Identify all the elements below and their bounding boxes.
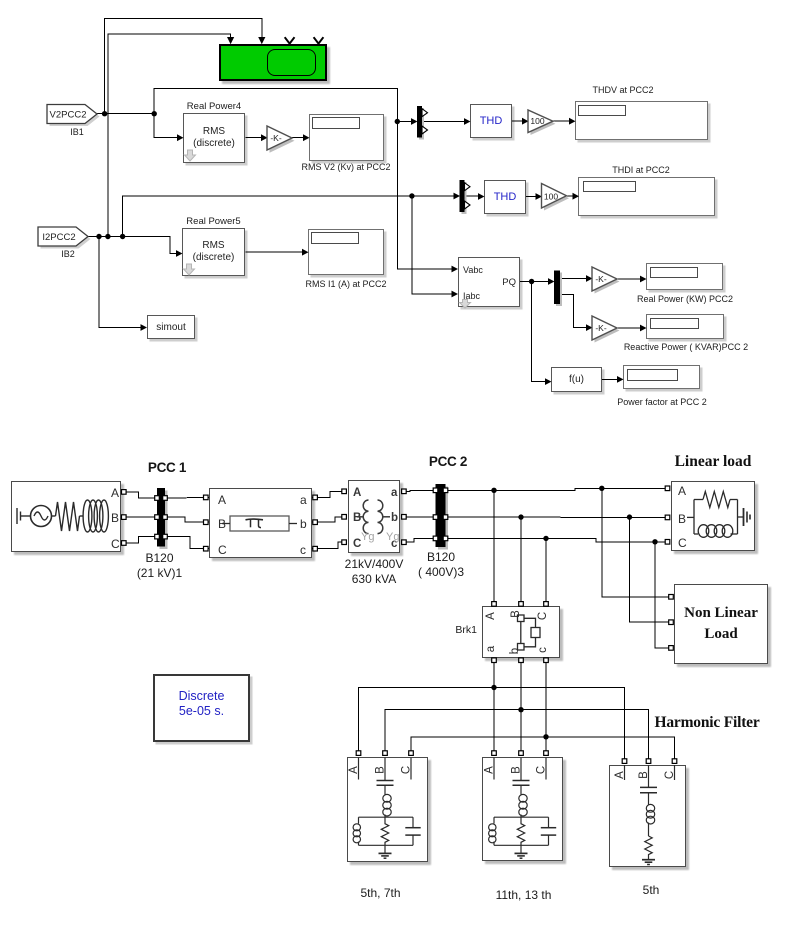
port squares bus1 (155, 496, 160, 501)
wire branch c to filter3 C (546, 737, 675, 760)
wire I2PCC2 output to RMS2 (88, 237, 177, 254)
wire drop b to Brk1 B (520, 517, 522, 602)
wire bus1 c to pi C (165, 537, 209, 549)
wire I2 up to scope input 1 (108, 34, 231, 237)
svg-text:Yg: Yg (361, 531, 374, 543)
pi section block (209, 488, 312, 558)
wire pi a to trafo A (312, 491, 346, 497)
wire demux out1 to gain4 (560, 278, 587, 280)
wire branch b to filter1 B (385, 710, 521, 752)
wire mux1 to THD1 (422, 121, 465, 123)
wire THD2 to gain 100 (526, 196, 536, 198)
svg-text:B: B (375, 766, 387, 774)
junction dot filter branch a (491, 685, 496, 690)
f(u) block (551, 367, 602, 392)
wire bus1 b to pi B (165, 517, 209, 522)
harmonic filter block 5th,7th (347, 757, 428, 862)
label IB2 (48, 249, 88, 261)
filter2 rotated letters (484, 766, 548, 774)
selector mux 1 (417, 106, 428, 140)
svg-text:c: c (537, 647, 549, 653)
demux bar (554, 271, 562, 307)
bus B120 (21 kV)1 label (129, 551, 190, 582)
arrowheads top section (177, 134, 184, 141)
junction dot I2-scope (105, 234, 110, 239)
svg-text:B: B (511, 766, 523, 774)
wire trafo c to bus2 (402, 538, 436, 542)
junction dot b-NLL (627, 514, 632, 519)
wire RMS2 to display (246, 251, 303, 253)
wire gain5 to display (617, 327, 641, 329)
wire THD1 to gain 100 (512, 120, 523, 122)
pi section interior icon (222, 516, 297, 531)
wire V2PCC2 output (97, 113, 154, 115)
junction dot I2-simout (96, 234, 101, 239)
transformer winding icon (357, 500, 390, 534)
port squares linear load (665, 486, 670, 491)
wire PQ output to demux (520, 281, 549, 283)
RMS block 1 (183, 113, 245, 163)
scope unconnected chevron 1 (285, 37, 295, 43)
wire pi c to trafo C (312, 542, 346, 549)
port squares filter1 (356, 751, 361, 756)
wire branch b to filter3 B (521, 710, 649, 760)
scope input arrow 1 (227, 37, 234, 44)
junction dot a-Brk (491, 488, 496, 493)
THD block 1 (470, 104, 512, 138)
RMS1 gray resample arrow (185, 150, 196, 161)
wire demux out2 to gain5 (560, 294, 587, 327)
wire phase b bus2 to linear load (446, 516, 668, 518)
svg-text:100: 100 (530, 116, 544, 126)
svg-text:-K-: -K- (270, 133, 282, 143)
filter2 interior (489, 758, 557, 859)
junction dot filter branch c (543, 734, 548, 739)
junction dot V2-scope (102, 111, 107, 116)
svg-text:-K-: -K- (595, 274, 607, 284)
wire I2 down to simout (99, 237, 141, 328)
label PCC 2 (413, 453, 483, 471)
gain -K- block 4 (592, 267, 620, 294)
harmonic filter block 5th (609, 765, 686, 867)
wire drop a to NLL 1 (602, 488, 671, 597)
label Harmonic Filter (632, 713, 782, 733)
wire gain100 to THDV display (553, 120, 570, 122)
bus bar B120 (400V)3 (436, 484, 449, 550)
linear load block (671, 481, 755, 551)
svg-text:A: A (485, 612, 497, 620)
wire drop b to NLL 2 (630, 517, 672, 622)
svg-text:I2PCC2: I2PCC2 (42, 232, 75, 243)
junction dot I2-branch (120, 234, 125, 239)
svg-text:A: A (348, 766, 360, 774)
port squares source (122, 490, 127, 495)
junction dot Iabc branch (409, 193, 414, 198)
display THDI at PCC2 (578, 177, 715, 216)
wire PQ branch down to f(u) (532, 282, 546, 382)
harmonic filter block 11th,13th (482, 757, 563, 861)
svg-text:-K-: -K- (595, 323, 607, 333)
source interior icon (17, 500, 108, 532)
port squares filter3 (622, 759, 627, 764)
wire phase a bus2 to linear load (446, 488, 668, 490)
display Reactive Power (646, 314, 724, 339)
PQ gray resample arrow (460, 300, 471, 309)
svg-text:a: a (485, 645, 497, 652)
RMS block 2 (182, 228, 245, 276)
port tag I2PCC2 (38, 227, 91, 249)
wire source A to bus1 (126, 492, 157, 498)
wire source B to bus1 (126, 516, 157, 518)
three-phase source block (11, 481, 121, 552)
label Real Power4 (183, 101, 245, 113)
wire branch to mux1 (397, 121, 411, 123)
svg-text:b: b (509, 648, 521, 654)
junction dot a-NLL (599, 486, 604, 491)
transformer block (348, 480, 400, 553)
wire gain to display1 (292, 137, 304, 139)
svg-text:Yg: Yg (386, 531, 399, 543)
port squares Brk1 top (492, 602, 497, 607)
scope screen (267, 49, 316, 76)
junction dot V2-branch (152, 111, 157, 116)
port squares Brk1 bottom (492, 658, 497, 663)
junction dot b-Brk (518, 514, 523, 519)
wire Brk1 c down to filter2 C (545, 663, 547, 753)
wire branch a to filter1 A (359, 688, 495, 753)
wire trafo a to bus2 (402, 490, 436, 491)
wire V2 up to scope input 2 (105, 19, 262, 114)
svg-text:V2PCC2: V2PCC2 (50, 110, 87, 121)
RMS2 gray resample arrow (184, 264, 195, 275)
port squares non linear load (669, 595, 674, 600)
selector mux 2 (460, 180, 471, 214)
gain 100 block 1 (528, 110, 556, 135)
linear load interior icon (687, 492, 750, 538)
wire mux2 to THD2 (465, 195, 479, 197)
transformer label (334, 557, 414, 588)
svg-text:C: C (536, 766, 548, 774)
wire gain100 to THDI display (567, 195, 574, 197)
label Brk1 (440, 624, 477, 638)
display Real Power (KW) PCC2 (646, 263, 723, 290)
gain -K- block 5 (592, 316, 620, 343)
scope unconnected chevron 2 (314, 37, 324, 43)
port squares pi right (313, 495, 318, 500)
scope (green) (219, 44, 327, 81)
wire V2 down to RMS1 (154, 114, 177, 138)
wire f(u) to display (602, 378, 618, 380)
label IB1 (57, 127, 97, 139)
svg-text:A: A (614, 771, 626, 779)
filter3 interior (625, 765, 675, 865)
wire gain4 to display (617, 278, 641, 280)
junction dot c-Brk (543, 536, 548, 541)
svg-text:C: C (401, 766, 413, 774)
display Power factor (623, 365, 700, 389)
wire branch to PQ Iabc (412, 196, 452, 294)
wire drop c to Brk1 C (545, 538, 547, 602)
wire source C to bus1 (126, 537, 157, 543)
label THDI at PCC2 (591, 165, 691, 177)
wire drop a to Brk1 A (493, 490, 495, 602)
powergui Discrete block (153, 674, 250, 742)
simout block (147, 315, 195, 339)
scope input arrow 2 (258, 37, 265, 44)
wire drop c to NLL 3 (655, 542, 671, 648)
svg-text:A: A (484, 766, 496, 774)
wire branch a to filter3 A (494, 688, 625, 761)
filter3 rotated letters (614, 771, 676, 779)
wire trafo b to bus2 (402, 516, 436, 518)
wire branch c to filter1 C (411, 737, 546, 752)
wire phase c bus2 to linear load (446, 538, 668, 541)
port squares pi left (204, 495, 209, 500)
breaker Brk1 block (482, 606, 560, 658)
wire I2 to THD mux2 and PQ Iabc (123, 196, 454, 237)
Brk1 rotated port letters (485, 610, 549, 654)
display RMS I1 (A) at PCC2 (308, 229, 384, 275)
bus B120 (400V)3 label (410, 550, 472, 581)
wire RMS1 to gain (246, 137, 262, 139)
port squares trafo left (342, 489, 347, 494)
gain 100 block 2 (542, 184, 570, 211)
wire Brk1 a down to filter2 A (493, 663, 495, 753)
port tag V2PCC2 (47, 105, 100, 127)
svg-text:B: B (510, 610, 522, 618)
label Linear load (671, 452, 755, 472)
junction dot c-NLL (652, 539, 657, 544)
port squares trafo right (402, 489, 407, 494)
filter1 rotated letters (348, 766, 413, 774)
svg-text:C: C (537, 612, 549, 620)
wire bus1 a to pi A (165, 497, 209, 500)
PQ block (458, 257, 520, 307)
THD block 2 (484, 180, 526, 214)
breaker Brk1 interior icon (518, 615, 541, 650)
svg-text:C: C (664, 771, 676, 779)
label PCC 1 (132, 459, 202, 477)
junction dot filter branch b (518, 707, 523, 712)
filter1 interior (353, 758, 421, 859)
wire pi b to trafo B (312, 517, 346, 522)
wire Brk1 b down to filter2 B (520, 663, 522, 753)
junction dot mux1 branch (395, 119, 400, 124)
wire V2 to THD mux and PQ Vabc (154, 89, 452, 269)
svg-text:B: B (638, 771, 650, 779)
bus bar B120 (21 kV)1 (157, 488, 168, 549)
label Real Power5 (182, 216, 245, 228)
port squares filter2 (492, 751, 497, 756)
display THDV at PCC2 (575, 101, 708, 140)
junction dot PQ-fu branch (529, 279, 534, 284)
port squares bus2 (433, 488, 438, 493)
non linear load block (674, 584, 768, 664)
label THDV at PCC2 (573, 85, 673, 97)
gain -K- block 1 (267, 126, 295, 153)
svg-text:100: 100 (544, 192, 558, 202)
display RMS V2 (Kv) at PCC2 (309, 114, 384, 161)
